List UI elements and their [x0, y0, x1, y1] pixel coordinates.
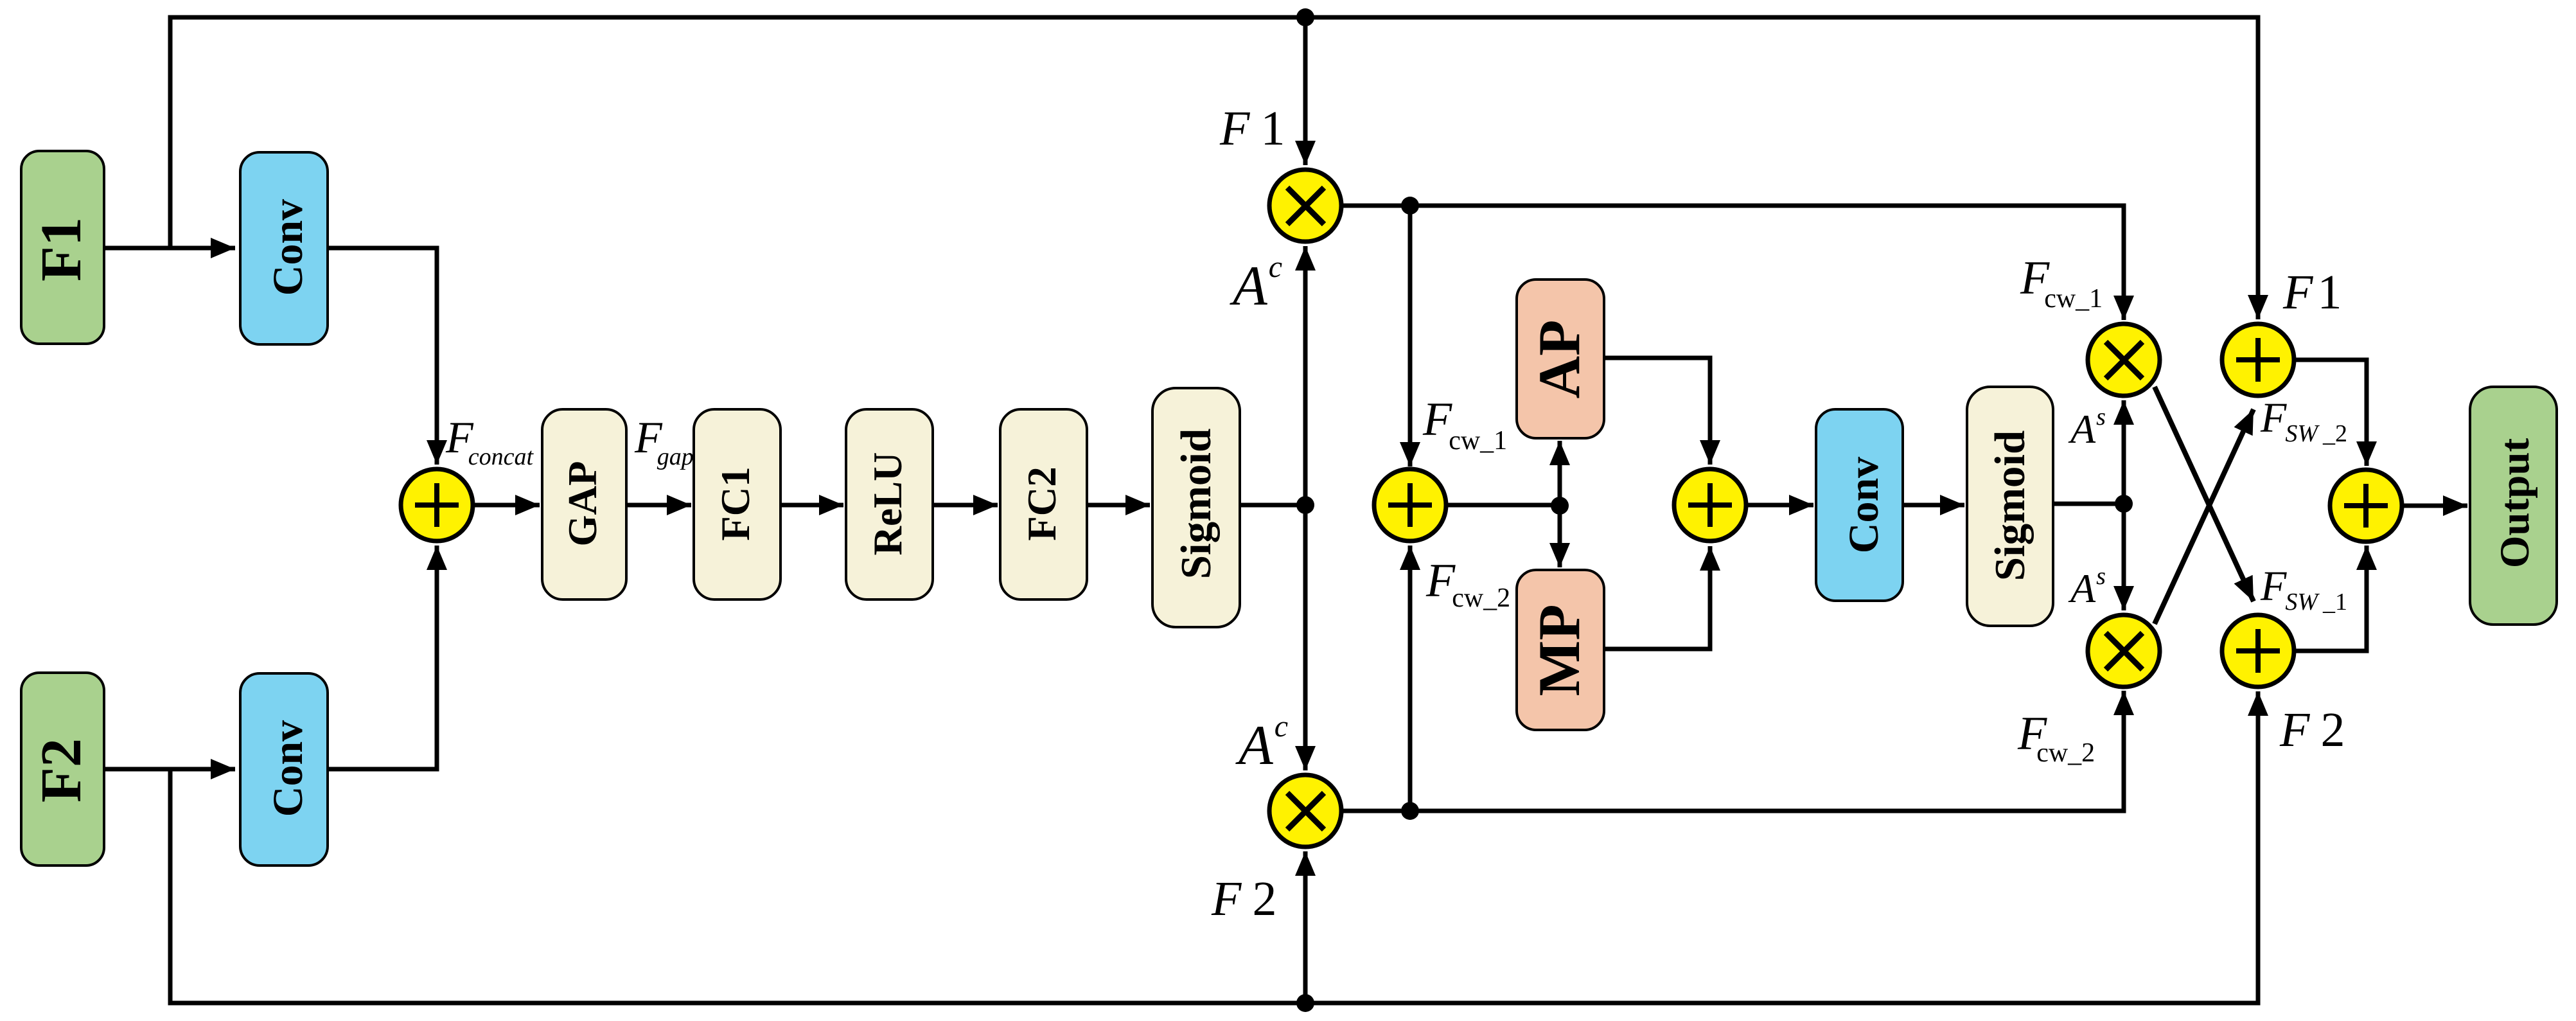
svg-text:Output: Output	[2492, 438, 2538, 569]
svg-text:Conv: Conv	[265, 720, 312, 817]
svg-text:F2: F2	[30, 738, 93, 803]
svg-text:AP: AP	[1526, 320, 1592, 399]
svg-text:MP: MP	[1526, 604, 1592, 696]
svg-text:GAP: GAP	[560, 461, 605, 547]
svg-text:FC2: FC2	[1019, 466, 1064, 540]
svg-text:Sigmoid: Sigmoid	[1986, 431, 2034, 582]
svg-text:FC1: FC1	[713, 466, 758, 540]
svg-text:F1: F1	[30, 217, 93, 281]
svg-text:ReLU: ReLU	[865, 452, 910, 556]
svg-text:Conv: Conv	[265, 199, 312, 296]
svg-text:F1: F1	[2282, 265, 2342, 319]
svg-text:Sigmoid: Sigmoid	[1172, 429, 1220, 580]
svg-text:Conv: Conv	[1840, 457, 1887, 553]
